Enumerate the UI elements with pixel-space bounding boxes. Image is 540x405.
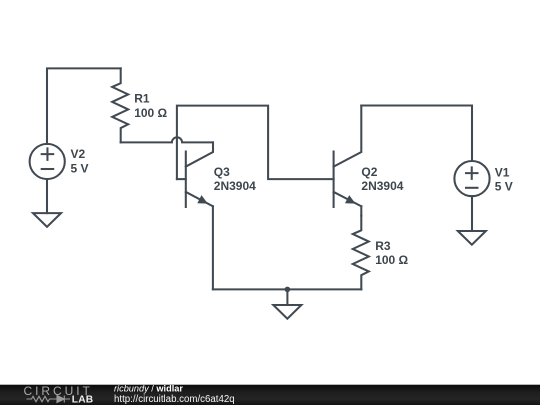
wire bbox=[286, 289, 288, 305]
junction dot bbox=[285, 287, 291, 293]
footer bar bbox=[0, 385, 540, 405]
ground bbox=[273, 305, 301, 319]
wire bbox=[212, 206, 214, 289]
svg-text:LAB: LAB bbox=[72, 395, 94, 405]
voltage source V2 bbox=[30, 144, 65, 179]
transistor Q2 bbox=[334, 106, 362, 208]
resistor R1 bbox=[112, 68, 128, 142]
svg-text:V1: V1 bbox=[495, 165, 510, 179]
svg-text:R3: R3 bbox=[375, 239, 391, 253]
svg-text:Q3: Q3 bbox=[214, 165, 230, 179]
wire bbox=[471, 196, 473, 231]
wire bbox=[46, 179, 48, 213]
logo resistor-diode wire bbox=[27, 396, 71, 403]
ground bbox=[33, 213, 61, 227]
transistor Q3 bbox=[177, 142, 213, 207]
svg-text:Q2: Q2 bbox=[361, 165, 377, 179]
svg-text:http://circuitlab.com/c6at42q: http://circuitlab.com/c6at42q bbox=[114, 394, 235, 405]
voltage source V1 bbox=[454, 161, 489, 196]
svg-text:ricbundy / widlar: ricbundy / widlar bbox=[114, 383, 183, 393]
svg-text:V2: V2 bbox=[71, 147, 86, 161]
svg-text:100 Ω: 100 Ω bbox=[134, 106, 167, 120]
svg-text:5 V: 5 V bbox=[495, 180, 513, 194]
wire bbox=[213, 288, 361, 290]
svg-text:100 Ω: 100 Ω bbox=[375, 253, 408, 267]
wire bbox=[360, 206, 362, 215]
ground bbox=[458, 231, 486, 245]
wire bbox=[177, 106, 334, 180]
svg-text:2N3904: 2N3904 bbox=[214, 179, 256, 193]
svg-text:5 V: 5 V bbox=[71, 161, 89, 175]
svg-text:2N3904: 2N3904 bbox=[361, 179, 403, 193]
svg-text:R1: R1 bbox=[134, 92, 150, 106]
resistor R3 bbox=[353, 216, 369, 290]
wire bbox=[47, 68, 121, 143]
wire bbox=[121, 137, 213, 142]
wire bbox=[361, 106, 472, 162]
